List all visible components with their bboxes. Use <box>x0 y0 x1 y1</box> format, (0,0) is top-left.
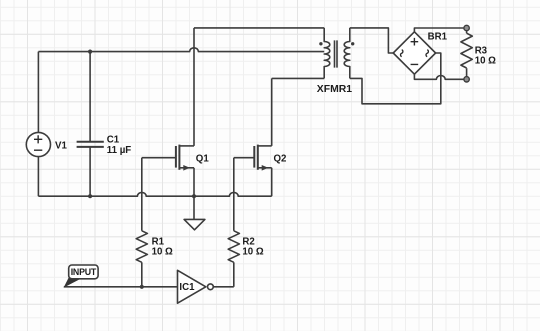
wire: bottom ground rail with hops over gate feeds <box>38 192 271 196</box>
node junction at C1 bottom <box>88 194 92 198</box>
primary winding <box>324 28 330 79</box>
core <box>335 40 338 67</box>
node junction at R1 bottom <box>140 285 144 289</box>
inverter IC1 <box>178 270 214 303</box>
terminal node bottom <box>464 77 469 82</box>
svg-text:IC1: IC1 <box>179 282 195 293</box>
node junction at C1 top <box>88 50 92 54</box>
wire: R2 bottom lead <box>233 262 235 287</box>
voltage source V1 <box>26 132 50 156</box>
svg-text:BR1: BR1 <box>428 31 448 42</box>
wire: C1 top lead <box>89 52 91 142</box>
svg-text:INPUT: INPUT <box>71 267 97 277</box>
wire: R3 top lead <box>466 28 468 33</box>
wire: C1 bottom lead <box>89 147 91 197</box>
ground <box>184 219 205 229</box>
wire: center-tap rail V1/C1 to primary center with hop over Q1 drain <box>38 48 324 52</box>
bridge rectifier BR1 <box>393 32 435 74</box>
input flag INPUT <box>64 265 99 288</box>
wire: V1 top lead <box>37 52 39 133</box>
svg-text:XFMR1: XFMR1 <box>317 84 352 95</box>
transistor Q2 <box>234 145 272 197</box>
capacitor C1 <box>77 142 104 147</box>
phase dot primary <box>319 42 322 45</box>
wire: bridge - to R3 bottom with hop over ac2 <box>414 74 464 79</box>
transformer XFMR1 <box>319 28 354 79</box>
svg-text:10 Ω: 10 Ω <box>475 56 496 67</box>
wire: bridge + to R3 top <box>414 28 464 32</box>
transistor Q1 <box>142 145 194 197</box>
resistor R3 <box>461 33 472 68</box>
node junction at ground <box>192 194 196 198</box>
svg-text:11 µF: 11 µF <box>107 145 132 156</box>
wire: Q2 gate feed down to R2 <box>233 158 235 231</box>
phase dot secondary <box>351 42 354 45</box>
svg-text:Q2: Q2 <box>274 153 287 164</box>
wire: ground stem <box>193 196 195 219</box>
wire: R1 bottom lead <box>141 262 143 287</box>
svg-text:10 Ω: 10 Ω <box>242 247 263 258</box>
svg-text:10 Ω: 10 Ω <box>152 247 173 258</box>
wire: top rail from Q1 drain to primary top <box>194 27 324 29</box>
terminal node top <box>464 25 469 30</box>
wire: Q1 drain vertical <box>193 28 195 146</box>
secondary winding <box>344 28 350 79</box>
wire: V1 bottom lead <box>37 157 39 197</box>
svg-text:V1: V1 <box>55 140 67 151</box>
wire: IC1 output to R2 <box>213 286 234 288</box>
svg-text:Q1: Q1 <box>196 153 210 164</box>
resistor R2 <box>228 231 239 263</box>
wire: secondary bottom to bridge ac2 <box>350 53 441 104</box>
wire: Q2 drain vertical to primary bottom <box>271 78 273 145</box>
resistor R1 <box>136 231 147 263</box>
wire: primary bottom to Q2 drain <box>272 77 325 79</box>
wire: input net <box>64 286 178 288</box>
wire: R3 bottom lead <box>466 68 468 79</box>
wire: secondary top to bridge ac1 <box>350 28 393 53</box>
wire: Q1 gate feed down to R1 <box>141 158 143 231</box>
